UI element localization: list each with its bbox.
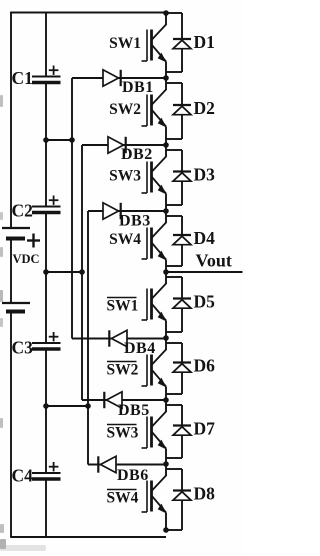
wire D4 cathode lead bbox=[181, 216, 183, 235]
wire battery mid bbox=[10, 238, 12, 303]
wire clamp feed line A x=72 bbox=[71, 78, 73, 339]
svg-text:Vout: Vout bbox=[196, 251, 232, 271]
wire tie bottom D6 bbox=[166, 393, 182, 395]
freewheel diode D4 bbox=[173, 236, 191, 245]
node A stub (C1-C2 junction) bbox=[46, 139, 72, 141]
wire D2 anode lead bbox=[181, 115, 183, 139]
IGBT SW4 collector stub bbox=[165, 211, 167, 223]
IGBT SW4bar emitter with arrow bbox=[152, 496, 167, 513]
wire tie top D1 bbox=[166, 12, 182, 14]
IGBT SW2bar collector diagonal bbox=[152, 349, 167, 365]
IGBT SW3bar emitter stub bbox=[165, 449, 167, 465]
svg-text:D2: D2 bbox=[194, 98, 215, 118]
wire tie bottom D5 bbox=[166, 331, 182, 333]
wire capacitor rail seg5 bbox=[45, 479, 47, 537]
capacitor C2 bbox=[32, 206, 61, 208]
IGBT SW2 collector stub bbox=[165, 78, 167, 90]
IGBT SW1bar emitter stub bbox=[165, 321, 167, 339]
IGBT SW3bar base bar bbox=[150, 417, 153, 448]
wire bottom DC rail bbox=[10, 536, 166, 538]
clamp diode DB3 bbox=[103, 203, 119, 219]
wire D3 anode lead bbox=[181, 181, 183, 205]
IGBT SW1bar collector diagonal bbox=[152, 283, 167, 299]
junction dot node 0 bbox=[163, 10, 169, 16]
IGBT SW2 emitter with arrow bbox=[152, 110, 167, 127]
svg-text:C1: C1 bbox=[12, 68, 33, 88]
IGBT SW1 collector stub bbox=[165, 13, 167, 25]
freewheel diode D8 bbox=[173, 492, 191, 501]
IGBT SW4bar emitter stub bbox=[165, 513, 167, 531]
IGBT SW4bar base bar bbox=[150, 481, 153, 512]
IGBT SW3bar collector diagonal bbox=[152, 411, 167, 427]
wire DB5 bbox=[82, 399, 166, 401]
IGBT SW2bar gate line bbox=[146, 355, 148, 387]
capacitor C4 plus sign bbox=[49, 466, 59, 468]
wire D6 anode lead bbox=[181, 372, 183, 394]
IGBT SW4 gate line bbox=[146, 228, 148, 260]
IGBT SW3bar collector stub bbox=[165, 400, 167, 412]
battery VDC bottom short plate bbox=[6, 310, 25, 314]
IGBT SW2 gate line bbox=[146, 95, 148, 127]
svg-text:SW4: SW4 bbox=[107, 490, 139, 507]
node A dots bbox=[43, 137, 49, 143]
wire D1 cathode lead bbox=[181, 13, 183, 39]
wire left rail lower (VDC - to bottom) bbox=[10, 311, 12, 537]
IGBT SW3 emitter stub bbox=[165, 194, 167, 212]
IGBT SW1 gate line bbox=[146, 30, 148, 62]
IGBT SW2 collector diagonal bbox=[152, 89, 167, 105]
svg-text:DB2: DB2 bbox=[121, 146, 153, 163]
IGBT SW2bar emitter stub bbox=[165, 387, 167, 401]
IGBT SW1bar base bar bbox=[150, 289, 153, 320]
svg-text:D6: D6 bbox=[194, 356, 216, 376]
svg-text:C2: C2 bbox=[12, 201, 33, 221]
IGBT SW4bar gate line bbox=[146, 481, 148, 513]
svg-text:DB4: DB4 bbox=[124, 340, 156, 357]
svg-text:D3: D3 bbox=[194, 165, 216, 185]
wire top DC rail bbox=[10, 12, 166, 14]
svg-text:SW2: SW2 bbox=[109, 101, 141, 118]
IGBT SW2 emitter stub bbox=[165, 127, 167, 146]
wire tie top D3 bbox=[166, 149, 182, 151]
clamp diode DB5 bbox=[107, 392, 123, 408]
IGBT SW3bar emitter with arrow bbox=[152, 432, 167, 449]
wire D5 anode lead bbox=[181, 308, 183, 332]
junction dot node 3 bbox=[163, 208, 169, 214]
wire left rail upper (to VDC +) bbox=[10, 12, 12, 228]
junction dot node 7 bbox=[163, 461, 169, 467]
wire capacitor rail seg2 bbox=[45, 83, 47, 207]
capacitor C1 plus sign bbox=[49, 69, 59, 71]
junction dot node 5 bbox=[163, 335, 169, 341]
freewheel diode D3 bbox=[173, 173, 191, 182]
capacitor C1 bbox=[32, 76, 61, 78]
scan artifacts left edge bbox=[0, 95, 46, 551]
svg-text:DB1: DB1 bbox=[122, 79, 154, 96]
wire D6 cathode lead bbox=[181, 343, 183, 363]
wire tie top D8 bbox=[166, 468, 182, 470]
wire D2 cathode lead bbox=[181, 83, 183, 105]
wire tie bottom D4 bbox=[166, 265, 182, 267]
wire clamp feed line C x=88 bbox=[87, 211, 89, 465]
wire D7 cathode lead bbox=[181, 405, 183, 426]
wire DB2 bbox=[82, 144, 166, 146]
wire tie top D5 bbox=[166, 276, 182, 278]
wire D7 anode lead bbox=[181, 435, 183, 458]
IGBT SW1bar gate line bbox=[146, 289, 148, 321]
IGBT SW4 emitter stub bbox=[165, 260, 167, 273]
junction dot node 2 bbox=[163, 142, 169, 148]
capacitor C3 bbox=[32, 342, 61, 344]
svg-text:SW3: SW3 bbox=[109, 168, 141, 185]
junction dot node 8 bbox=[163, 527, 169, 533]
svg-text:VDC: VDC bbox=[13, 252, 40, 266]
clamp diode DB2 bbox=[108, 137, 124, 153]
node C stub (C3-C4 junction) bbox=[46, 405, 88, 407]
freewheel diode D5 bbox=[173, 300, 191, 309]
capacitor C3 plus sign bbox=[49, 336, 59, 338]
node B stub (C2-C3 junction) bbox=[46, 271, 82, 273]
IGBT SW2bar collector stub bbox=[165, 338, 167, 350]
wire D3 cathode lead bbox=[181, 150, 183, 172]
battery VDC top long plate bbox=[2, 227, 30, 229]
wire tie top D7 bbox=[166, 404, 182, 406]
clamp diode DB6 bbox=[101, 456, 117, 472]
wire tie bottom D3 bbox=[166, 204, 182, 206]
freewheel diode D7 bbox=[173, 427, 191, 436]
battery VDC bottom long plate bbox=[2, 302, 30, 304]
wire Vout output bbox=[166, 271, 243, 273]
IGBT SW3 gate line bbox=[146, 162, 148, 194]
wire capacitor rail seg4 bbox=[45, 349, 47, 473]
wire DB3 bbox=[88, 210, 166, 212]
svg-text:C4: C4 bbox=[12, 466, 34, 486]
wire D1 anode lead bbox=[181, 49, 183, 72]
wire D5 cathode lead bbox=[181, 277, 183, 299]
wire tie top D6 bbox=[166, 342, 182, 344]
IGBT SW1 emitter stub bbox=[165, 62, 167, 79]
IGBT SW4bar collector diagonal bbox=[152, 475, 167, 491]
freewheel diode D1 bbox=[173, 40, 191, 49]
svg-text:D1: D1 bbox=[194, 32, 215, 52]
IGBT SW3 base bar bbox=[150, 162, 153, 193]
svg-text:SW3: SW3 bbox=[107, 425, 139, 442]
battery VDC + sign bbox=[27, 239, 40, 241]
node B dots bbox=[43, 269, 49, 275]
IGBT SW4 emitter with arrow bbox=[152, 243, 167, 260]
junction dot node 4 bbox=[163, 269, 169, 275]
wire capacitor rail seg3 bbox=[45, 213, 47, 344]
wire DB1 bbox=[72, 77, 166, 79]
svg-text:D7: D7 bbox=[194, 419, 216, 439]
svg-text:SW2: SW2 bbox=[107, 362, 139, 379]
svg-text:SW1: SW1 bbox=[109, 35, 141, 52]
wire tie top D2 bbox=[166, 82, 182, 84]
IGBT SW3 collector diagonal bbox=[152, 156, 167, 172]
IGBT SW3bar gate line bbox=[146, 417, 148, 449]
freewheel diode D2 bbox=[173, 106, 191, 115]
junction dot node 1 bbox=[163, 75, 169, 81]
IGBT SW4bar collector stub bbox=[165, 464, 167, 476]
svg-text:D8: D8 bbox=[194, 484, 216, 504]
IGBT SW2bar emitter with arrow bbox=[152, 370, 167, 387]
wire tie bottom D8 bbox=[166, 529, 182, 531]
wire D4 anode lead bbox=[181, 245, 183, 266]
IGBT SW2bar base bar bbox=[150, 355, 153, 386]
wire DB4 bbox=[72, 338, 166, 340]
svg-text:D4: D4 bbox=[194, 228, 216, 248]
IGBT SW1bar emitter with arrow bbox=[152, 304, 167, 321]
svg-text:DB5: DB5 bbox=[118, 402, 150, 419]
wire tie bottom D2 bbox=[166, 138, 182, 140]
wire tie top D4 bbox=[166, 215, 182, 217]
battery VDC top short plate bbox=[6, 237, 25, 241]
IGBT SW3 emitter with arrow bbox=[152, 177, 167, 194]
svg-text:D5: D5 bbox=[194, 292, 216, 312]
svg-text:C3: C3 bbox=[12, 338, 34, 358]
IGBT SW1 base bar bbox=[150, 30, 153, 61]
wire tie bottom D1 bbox=[166, 71, 182, 73]
svg-text:SW1: SW1 bbox=[107, 298, 139, 315]
wire D8 cathode lead bbox=[181, 469, 183, 491]
wire clamp feed line B x=82 bbox=[81, 145, 83, 400]
wire capacitor rail seg1 bbox=[45, 12, 47, 77]
capacitor C2 plus sign bbox=[49, 199, 59, 201]
node C dots bbox=[43, 403, 49, 409]
wire tie bottom D7 bbox=[166, 457, 182, 459]
IGBT SW1 collector diagonal bbox=[152, 24, 167, 40]
IGBT SW4 collector diagonal bbox=[152, 222, 167, 238]
svg-text:SW4: SW4 bbox=[109, 231, 141, 248]
wire DB6 bbox=[88, 464, 166, 466]
IGBT SW2 base bar bbox=[150, 95, 153, 126]
IGBT SW3 collector stub bbox=[165, 145, 167, 157]
IGBT SW1 emitter with arrow bbox=[152, 45, 167, 62]
svg-text:DB6: DB6 bbox=[117, 467, 149, 484]
wire D8 anode lead bbox=[181, 500, 183, 530]
IGBT SW4 base bar bbox=[150, 228, 153, 259]
IGBT SW1bar collector stub bbox=[165, 272, 167, 284]
clamp diode DB1 bbox=[103, 70, 119, 86]
capacitor C4 bbox=[32, 472, 61, 474]
freewheel diode D6 bbox=[173, 364, 191, 373]
svg-text:DB3: DB3 bbox=[119, 213, 151, 230]
junction dot node 6 bbox=[163, 397, 169, 403]
clamp diode DB4 bbox=[112, 330, 128, 346]
